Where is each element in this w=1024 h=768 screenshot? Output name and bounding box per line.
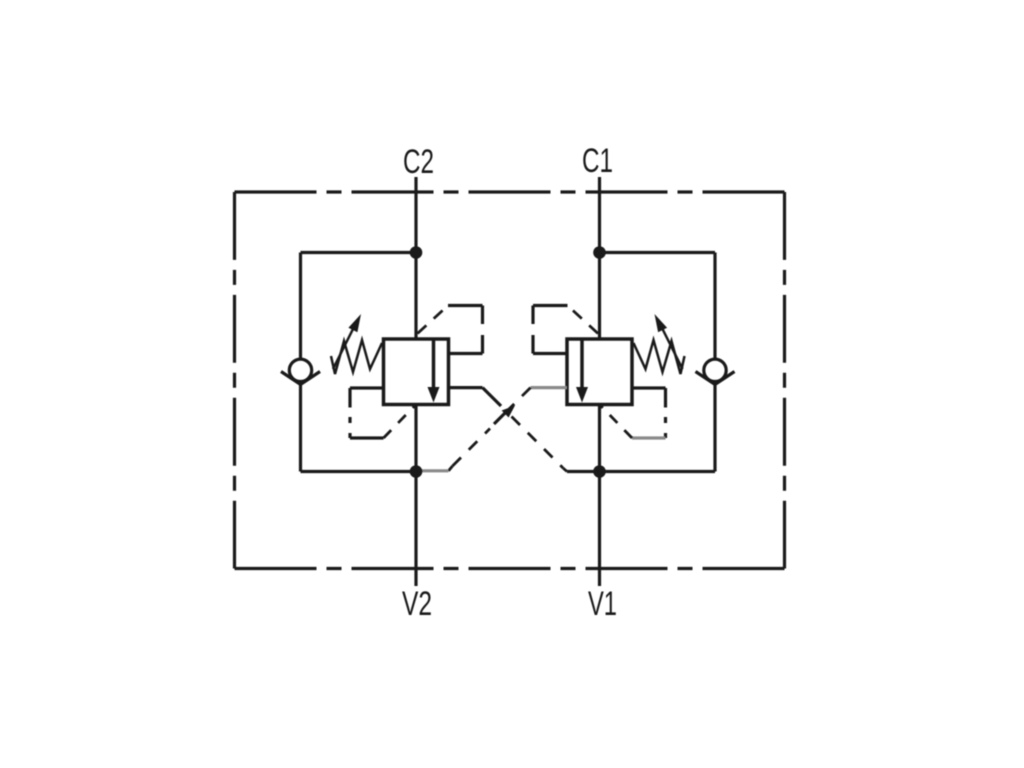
counterbalance valve body V2-side (left square) [384, 339, 449, 405]
check valve CV1 (right) [696, 359, 735, 384]
wire V1 port line [598, 405, 601, 587]
pilot dashed diagonal to V2 output [384, 406, 416, 439]
counterbalance valve body V1-side (right square) [567, 339, 632, 405]
adjustment arrow right valve [655, 314, 683, 369]
enclosure border right (dash-dot) [783, 192, 786, 569]
wire left check lower vertical [299, 384, 302, 472]
pilot box lower left-valve [350, 388, 384, 438]
svg-text:C2: C2 [403, 143, 434, 181]
check valve CV2 (left) [281, 359, 320, 384]
cross pilot line A: left valve to V1 junction [449, 388, 600, 472]
wire right check upper vertical [713, 253, 716, 360]
pilot box upper left-valve [448, 306, 483, 354]
wire C2 port line [414, 177, 417, 339]
node junction dot C1 [593, 246, 606, 259]
pilot box upper right-valve [533, 306, 568, 354]
pilot box lower right-valve [632, 388, 666, 438]
enclosure border top (dash-dot) [235, 190, 785, 193]
svg-text:V2: V2 [402, 585, 432, 623]
wire top-right branch horizontal [600, 251, 716, 254]
svg-text:C1: C1 [582, 142, 613, 180]
wire bottom-left branch horizontal [301, 470, 417, 473]
pilot arrowhead at crossing [502, 406, 515, 418]
spring right valve [634, 340, 685, 374]
enclosure border left (dash-dot) [233, 192, 236, 569]
enclosure border bottom (dash-dot) [235, 567, 785, 570]
adjustment arrow left valve [333, 314, 361, 369]
svg-text:V1: V1 [588, 585, 617, 623]
node junction dot V2 [410, 465, 423, 478]
wire top-left branch horizontal [301, 251, 417, 254]
wire C1 port line [598, 177, 601, 339]
wire left check upper vertical [299, 253, 302, 360]
pilot dashed diagonal to V1 output [601, 406, 633, 439]
pilot dashed diagonal to C2 line [418, 306, 449, 334]
node junction dot C2 [410, 246, 423, 259]
node junction dot V1 [593, 465, 606, 478]
wire right check lower vertical [713, 384, 716, 472]
wire V2 port line [414, 405, 417, 587]
wire bottom-right branch horizontal [600, 470, 716, 473]
flow arrow inside left valve [428, 387, 440, 403]
spring left valve [331, 340, 382, 374]
pilot dashed diagonal to C1 line [568, 306, 599, 334]
flow arrow inside right valve [576, 387, 588, 403]
cross pilot line B: V2 junction to right valve [416, 388, 567, 471]
